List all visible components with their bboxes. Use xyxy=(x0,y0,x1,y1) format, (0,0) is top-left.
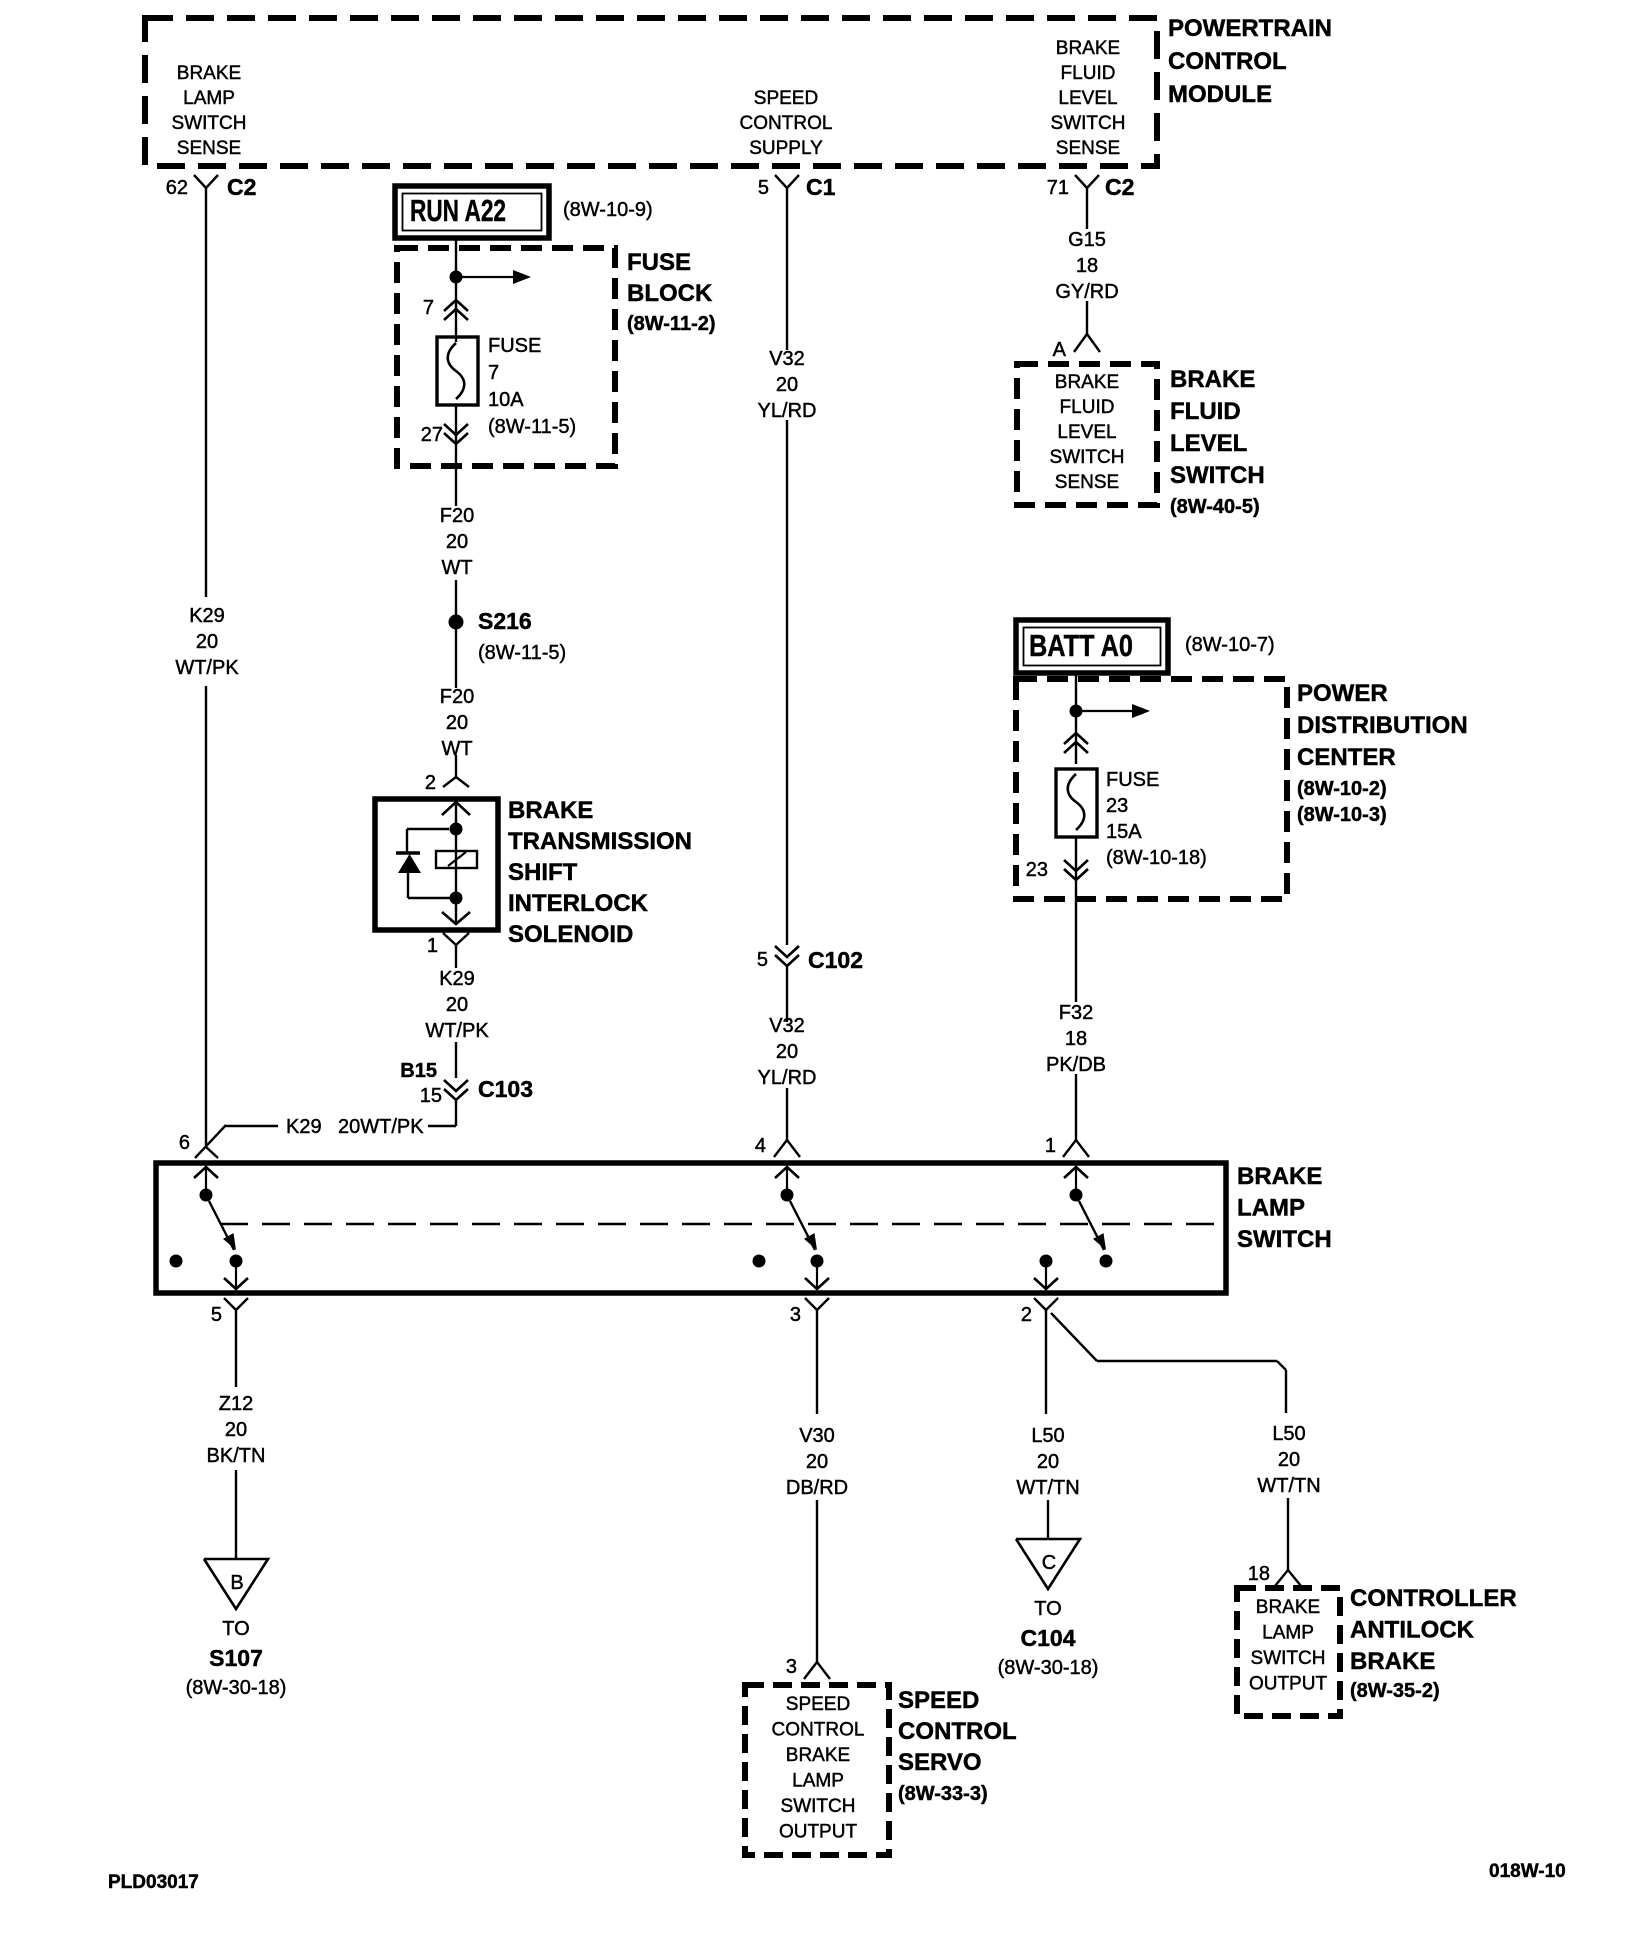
svg-text:CONTROL: CONTROL xyxy=(772,1720,865,1741)
svg-text:(8W-10-2): (8W-10-2) xyxy=(1297,778,1387,800)
svg-text:V32: V32 xyxy=(769,1015,805,1037)
svg-text:C103: C103 xyxy=(478,1076,533,1102)
svg-text:CONTROL: CONTROL xyxy=(1168,48,1287,75)
svg-text:6: 6 xyxy=(179,1132,190,1154)
svg-text:20WT/PK: 20WT/PK xyxy=(338,1116,424,1138)
svg-text:SWITCH: SWITCH xyxy=(1251,1648,1326,1669)
svg-text:PK/DB: PK/DB xyxy=(1046,1054,1106,1076)
svg-text:71: 71 xyxy=(1047,177,1069,199)
svg-text:K29: K29 xyxy=(189,605,225,627)
svg-text:SUPPLY: SUPPLY xyxy=(749,138,823,159)
svg-text:20: 20 xyxy=(1278,1449,1300,1471)
svg-text:15: 15 xyxy=(420,1085,442,1107)
svg-text:SPEED: SPEED xyxy=(786,1694,850,1715)
svg-text:20: 20 xyxy=(225,1419,247,1441)
svg-text:WT/TN: WT/TN xyxy=(1257,1475,1320,1497)
svg-text:7: 7 xyxy=(488,362,499,384)
svg-text:WT/PK: WT/PK xyxy=(425,1020,489,1042)
svg-text:SWITCH: SWITCH xyxy=(1050,447,1125,468)
svg-text:18: 18 xyxy=(1076,255,1098,277)
svg-text:SENSE: SENSE xyxy=(1055,472,1119,493)
svg-text:F20: F20 xyxy=(440,686,474,708)
svg-text:15A: 15A xyxy=(1106,821,1142,843)
svg-text:3: 3 xyxy=(790,1304,801,1326)
svg-text:1: 1 xyxy=(427,935,438,957)
svg-text:LEVEL: LEVEL xyxy=(1057,422,1116,443)
svg-text:20: 20 xyxy=(446,531,468,553)
svg-text:OUTPUT: OUTPUT xyxy=(1249,1674,1328,1695)
svg-text:20: 20 xyxy=(806,1451,828,1473)
svg-text:C104: C104 xyxy=(1021,1625,1076,1651)
svg-text:BRAKE: BRAKE xyxy=(1350,1648,1435,1675)
svg-text:SWITCH: SWITCH xyxy=(781,1796,856,1817)
svg-text:POWERTRAIN: POWERTRAIN xyxy=(1168,15,1332,42)
svg-text:C1: C1 xyxy=(806,174,836,200)
svg-text:BK/TN: BK/TN xyxy=(207,1445,266,1467)
svg-text:V30: V30 xyxy=(799,1425,835,1447)
svg-text:20: 20 xyxy=(446,994,468,1016)
svg-text:BATT A0: BATT A0 xyxy=(1029,628,1133,663)
svg-text:V32: V32 xyxy=(769,348,805,370)
svg-text:2: 2 xyxy=(425,772,436,794)
svg-text:LAMP: LAMP xyxy=(1262,1623,1314,1644)
svg-text:C: C xyxy=(1042,1552,1056,1574)
svg-text:BRAKE: BRAKE xyxy=(1170,366,1255,393)
svg-text:WT: WT xyxy=(441,557,472,579)
svg-text:S107: S107 xyxy=(209,1645,263,1671)
svg-text:FLUID: FLUID xyxy=(1170,398,1241,425)
svg-text:G15: G15 xyxy=(1068,229,1106,251)
svg-text:SPEED: SPEED xyxy=(754,88,818,109)
svg-text:SOLENOID: SOLENOID xyxy=(508,921,633,948)
svg-text:WT/PK: WT/PK xyxy=(175,657,239,679)
svg-text:C2: C2 xyxy=(1105,174,1134,200)
svg-text:C2: C2 xyxy=(227,174,256,200)
svg-text:CONTROL: CONTROL xyxy=(740,113,833,134)
svg-text:(8W-10-7): (8W-10-7) xyxy=(1185,634,1275,656)
svg-text:20: 20 xyxy=(446,712,468,734)
svg-text:SENSE: SENSE xyxy=(177,138,241,159)
svg-text:SWITCH: SWITCH xyxy=(1170,462,1265,489)
svg-text:LAMP: LAMP xyxy=(1237,1195,1305,1222)
svg-text:PLD03017: PLD03017 xyxy=(108,1872,199,1893)
svg-text:BRAKE: BRAKE xyxy=(1237,1163,1322,1190)
svg-text:WT/TN: WT/TN xyxy=(1016,1477,1079,1499)
svg-text:23: 23 xyxy=(1026,859,1048,881)
svg-text:RUN A22: RUN A22 xyxy=(410,193,506,228)
svg-text:C102: C102 xyxy=(808,947,863,973)
svg-text:(8W-40-5): (8W-40-5) xyxy=(1170,496,1260,518)
svg-text:BRAKE: BRAKE xyxy=(508,797,593,824)
svg-text:SWITCH: SWITCH xyxy=(1237,1226,1332,1253)
svg-text:2: 2 xyxy=(1021,1304,1032,1326)
svg-text:20: 20 xyxy=(776,374,798,396)
svg-text:FUSE: FUSE xyxy=(627,249,691,276)
svg-text:LAMP: LAMP xyxy=(792,1771,844,1792)
svg-text:20: 20 xyxy=(196,631,218,653)
svg-text:20: 20 xyxy=(776,1041,798,1063)
svg-text:F32: F32 xyxy=(1059,1002,1093,1024)
svg-text:TO: TO xyxy=(222,1618,249,1640)
svg-text:(8W-10-18): (8W-10-18) xyxy=(1106,847,1207,869)
svg-text:TRANSMISSION: TRANSMISSION xyxy=(508,828,692,855)
svg-text:(8W-30-18): (8W-30-18) xyxy=(186,1677,287,1699)
svg-text:20: 20 xyxy=(1037,1451,1059,1473)
svg-text:BLOCK: BLOCK xyxy=(627,280,713,307)
svg-text:(8W-10-3): (8W-10-3) xyxy=(1297,804,1387,826)
svg-text:FUSE: FUSE xyxy=(1106,769,1159,791)
svg-text:BRAKE: BRAKE xyxy=(1056,38,1120,59)
svg-text:18: 18 xyxy=(1065,1028,1087,1050)
svg-text:CONTROL: CONTROL xyxy=(898,1718,1017,1745)
svg-text:K29: K29 xyxy=(286,1116,322,1138)
svg-text:K29: K29 xyxy=(439,968,475,990)
svg-text:018W-10: 018W-10 xyxy=(1489,1861,1566,1882)
svg-text:LAMP: LAMP xyxy=(183,88,235,109)
svg-text:DISTRIBUTION: DISTRIBUTION xyxy=(1297,712,1468,739)
svg-text:(8W-30-18): (8W-30-18) xyxy=(998,1657,1099,1679)
svg-text:BRAKE: BRAKE xyxy=(1256,1597,1320,1618)
svg-text:A: A xyxy=(1053,339,1067,361)
svg-text:CONTROLLER: CONTROLLER xyxy=(1350,1585,1517,1612)
svg-text:(8W-33-3): (8W-33-3) xyxy=(898,1783,988,1805)
svg-text:(8W-35-2): (8W-35-2) xyxy=(1350,1680,1440,1702)
svg-text:LEVEL: LEVEL xyxy=(1170,430,1247,457)
svg-text:TO: TO xyxy=(1034,1598,1061,1620)
svg-text:F20: F20 xyxy=(440,505,474,527)
svg-text:23: 23 xyxy=(1106,795,1128,817)
svg-text:3: 3 xyxy=(786,1656,797,1678)
svg-text:LEVEL: LEVEL xyxy=(1058,88,1117,109)
svg-text:L50: L50 xyxy=(1031,1425,1064,1447)
svg-text:SERVO: SERVO xyxy=(898,1749,982,1776)
svg-text:SWITCH: SWITCH xyxy=(1051,113,1126,134)
svg-text:B15: B15 xyxy=(400,1060,437,1082)
svg-text:GY/RD: GY/RD xyxy=(1055,281,1118,303)
svg-text:10A: 10A xyxy=(488,389,524,411)
svg-text:SPEED: SPEED xyxy=(898,1687,979,1714)
svg-text:BRAKE: BRAKE xyxy=(1055,372,1119,393)
svg-text:OUTPUT: OUTPUT xyxy=(779,1822,858,1843)
svg-text:BRAKE: BRAKE xyxy=(786,1745,850,1766)
svg-text:SENSE: SENSE xyxy=(1056,138,1120,159)
svg-text:(8W-11-5): (8W-11-5) xyxy=(488,416,576,438)
svg-text:S216: S216 xyxy=(478,608,532,634)
svg-text:SWITCH: SWITCH xyxy=(172,113,247,134)
svg-text:INTERLOCK: INTERLOCK xyxy=(508,890,649,917)
svg-text:POWER: POWER xyxy=(1297,680,1388,707)
svg-text:7: 7 xyxy=(423,297,434,319)
svg-text:18: 18 xyxy=(1248,1563,1270,1585)
svg-text:CENTER: CENTER xyxy=(1297,744,1396,771)
svg-text:YL/RD: YL/RD xyxy=(758,400,817,422)
svg-text:4: 4 xyxy=(755,1135,766,1157)
svg-text:5: 5 xyxy=(758,177,769,199)
svg-text:5: 5 xyxy=(757,949,768,971)
svg-text:(8W-11-5): (8W-11-5) xyxy=(478,642,566,664)
svg-text:YL/RD: YL/RD xyxy=(758,1067,817,1089)
svg-text:L50: L50 xyxy=(1272,1423,1305,1445)
svg-text:SHIFT: SHIFT xyxy=(508,859,578,886)
svg-text:MODULE: MODULE xyxy=(1168,81,1272,108)
svg-text:FLUID: FLUID xyxy=(1060,397,1115,418)
svg-text:(8W-10-9): (8W-10-9) xyxy=(563,199,653,221)
svg-text:1: 1 xyxy=(1045,1135,1056,1157)
svg-text:Z12: Z12 xyxy=(219,1393,253,1415)
svg-text:DB/RD: DB/RD xyxy=(786,1477,848,1499)
svg-text:ANTILOCK: ANTILOCK xyxy=(1350,1617,1475,1644)
svg-text:B: B xyxy=(230,1572,243,1594)
svg-text:62: 62 xyxy=(166,177,188,199)
svg-text:(8W-11-2): (8W-11-2) xyxy=(627,313,716,335)
svg-text:FUSE: FUSE xyxy=(488,335,541,357)
svg-text:27: 27 xyxy=(421,424,443,446)
svg-text:FLUID: FLUID xyxy=(1061,63,1116,84)
svg-text:BRAKE: BRAKE xyxy=(177,63,241,84)
svg-text:5: 5 xyxy=(211,1304,222,1326)
